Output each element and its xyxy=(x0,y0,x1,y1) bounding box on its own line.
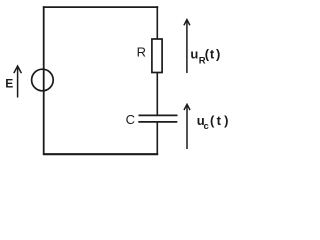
resistor R body xyxy=(152,39,162,73)
wire right edge lower segment xyxy=(156,122,158,155)
wire top edge xyxy=(43,6,158,8)
wire bottom edge xyxy=(43,153,158,155)
svg-text:R: R xyxy=(137,44,146,59)
label uR(t) xyxy=(190,46,220,66)
svg-text:(: ( xyxy=(210,113,215,128)
svg-text:E: E xyxy=(5,77,13,91)
capacitor C bottom plate xyxy=(138,121,177,123)
capacitor C top plate xyxy=(139,114,178,116)
svg-text:t: t xyxy=(217,113,222,128)
svg-text:t: t xyxy=(210,46,215,61)
arrow for uR xyxy=(184,20,190,73)
wire right edge upper segment xyxy=(156,6,158,39)
svg-text:u: u xyxy=(190,46,198,61)
svg-text:): ) xyxy=(216,46,220,61)
arrow for E xyxy=(14,66,22,98)
arrow for uC xyxy=(184,104,190,149)
voltage source E circle xyxy=(32,69,54,91)
wire right edge middle segment xyxy=(156,73,158,116)
label uC(t) xyxy=(197,113,229,132)
svg-text:C: C xyxy=(126,112,135,127)
svg-text:c: c xyxy=(204,121,209,132)
svg-text:): ) xyxy=(224,113,228,128)
wire left edge xyxy=(43,6,45,155)
